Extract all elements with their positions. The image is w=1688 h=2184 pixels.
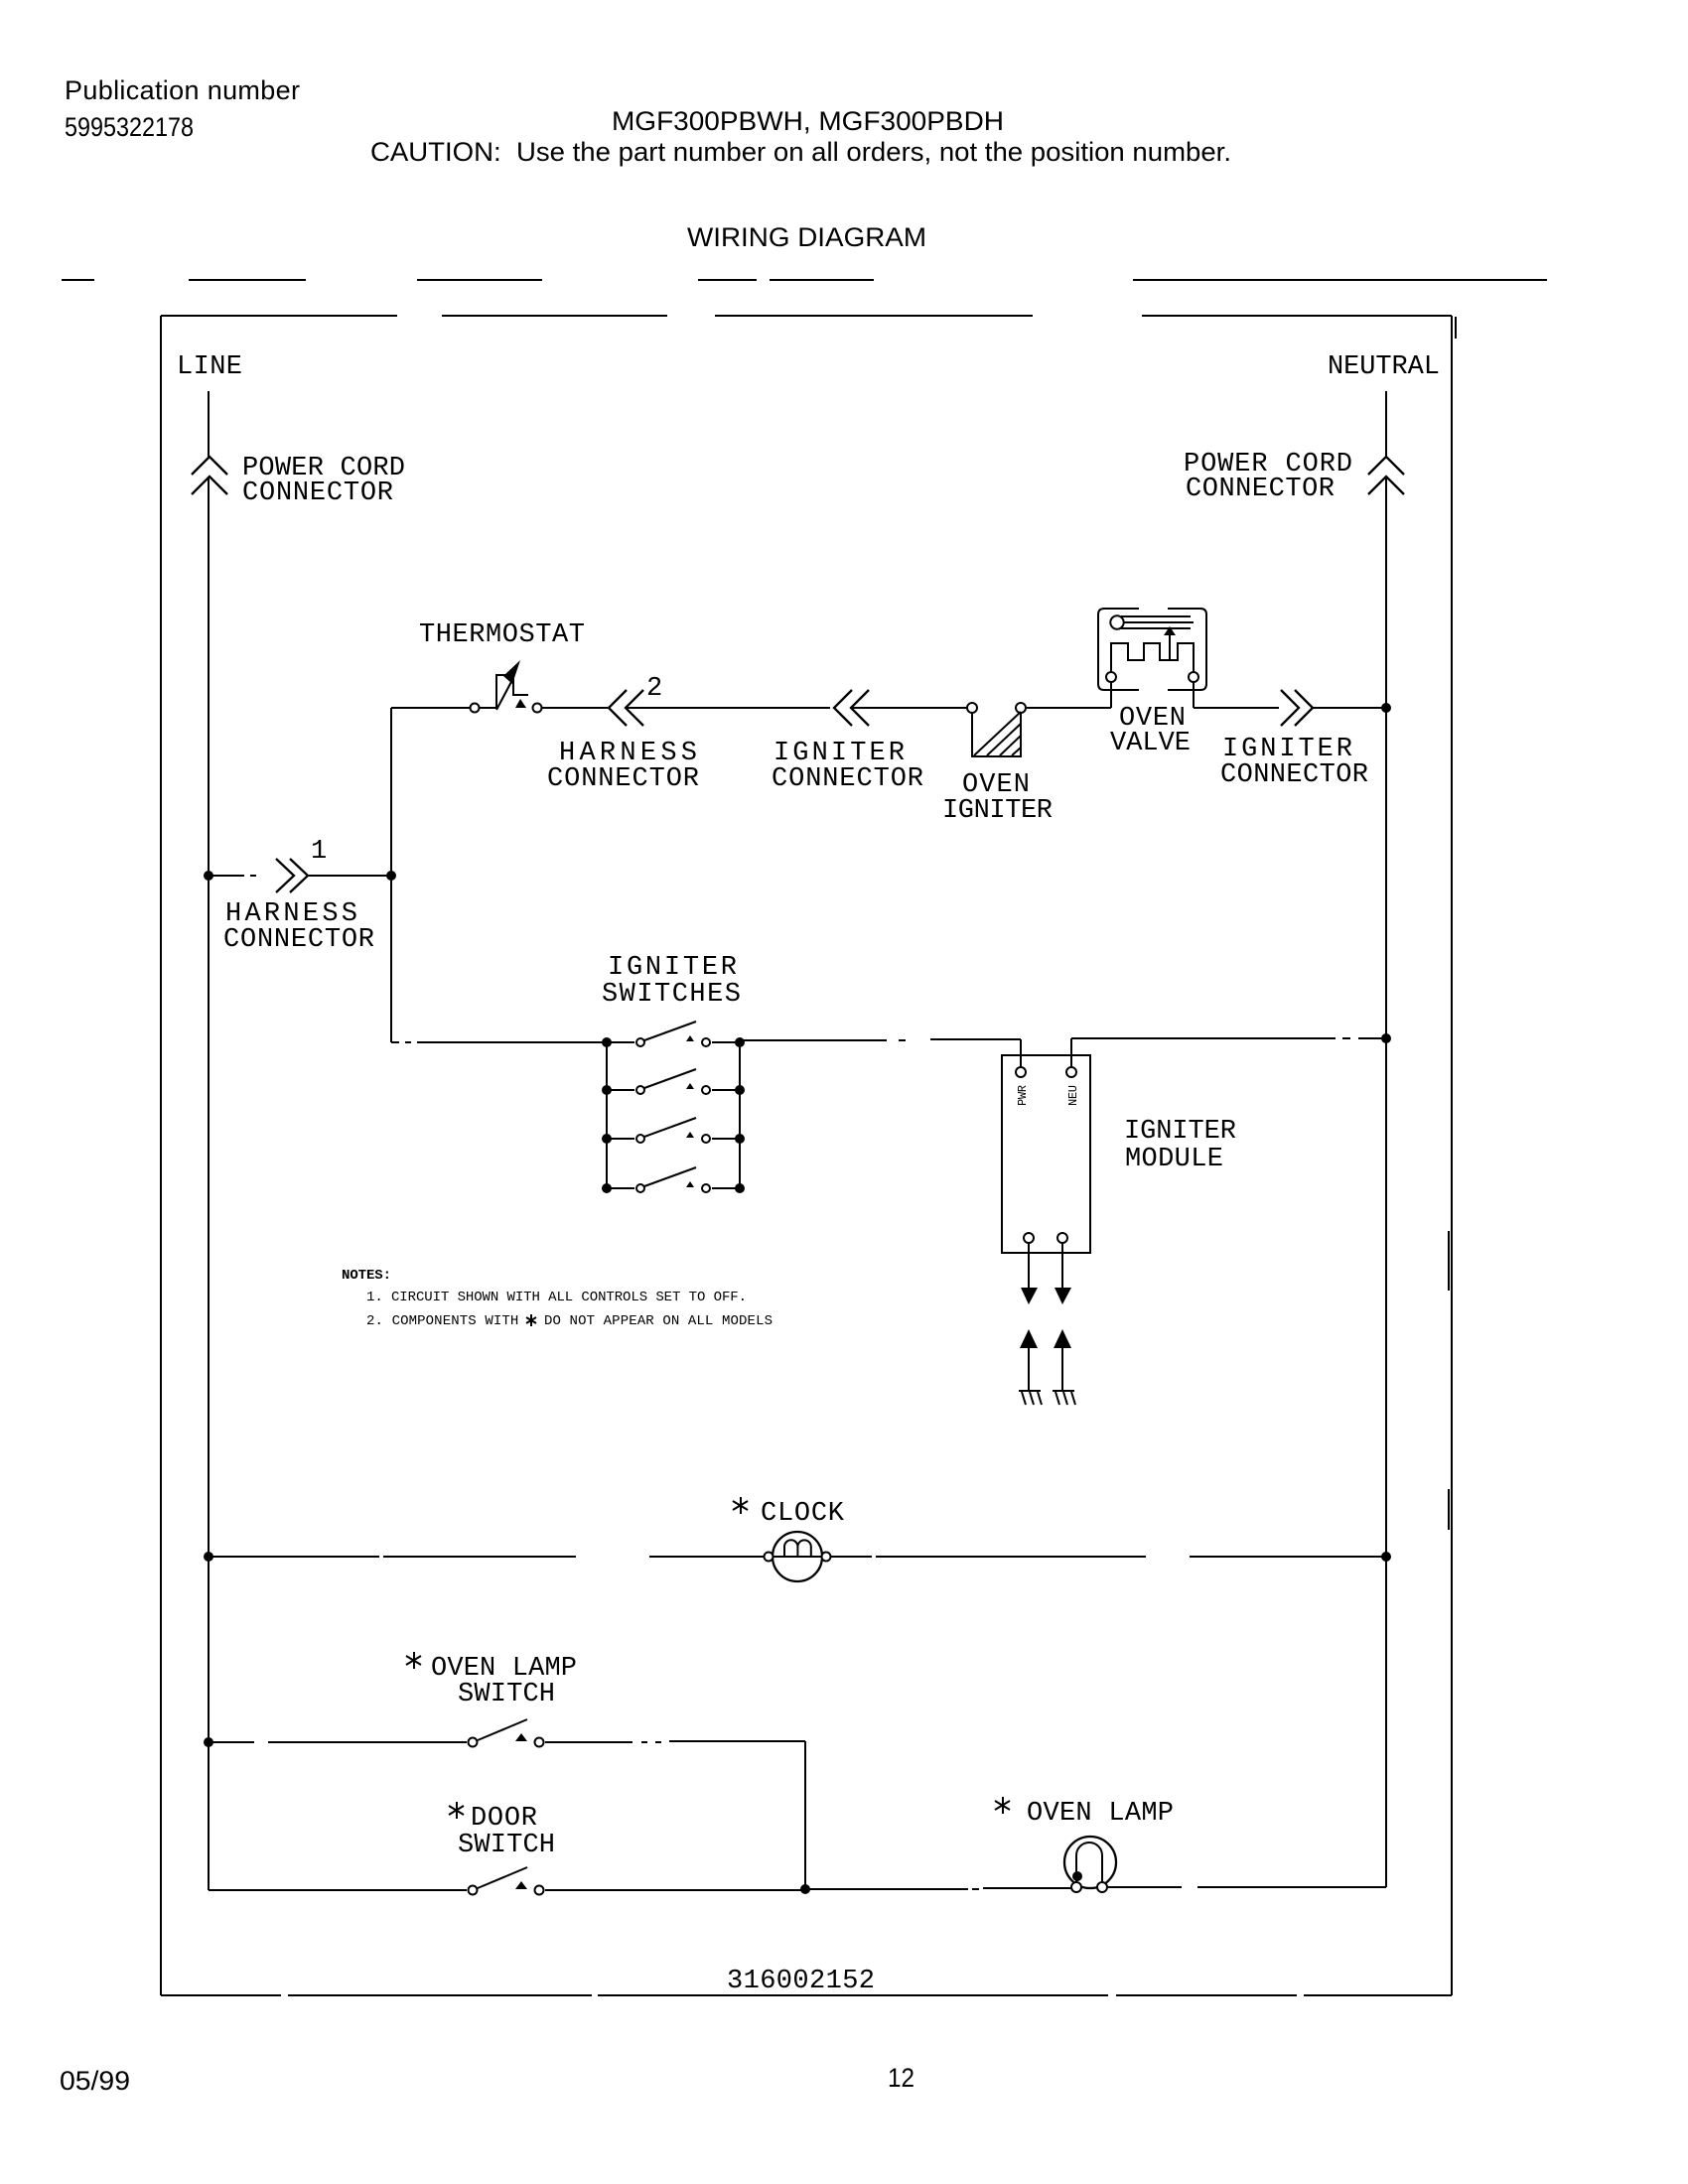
wire: harness row right xyxy=(309,875,391,877)
oven lamp switch xyxy=(406,1652,577,1747)
svg-text:CONNECTOR: CONNECTOR xyxy=(1186,475,1335,504)
wire: thermostat branch vertical xyxy=(390,708,392,1042)
svg-text:CLOCK: CLOCK xyxy=(761,1499,845,1529)
junction: NEUTRAL bus / clock row xyxy=(1381,1552,1391,1562)
svg-text:SWITCH: SWITCH xyxy=(458,1680,555,1709)
wire: igniter connector right to NEUTRAL bus xyxy=(1313,707,1386,709)
igniter module xyxy=(1002,1055,1236,1253)
wire: junction to oven lamp xyxy=(805,1888,1071,1889)
junction: thermostat row / NEUTRAL bus xyxy=(1381,703,1391,713)
harness connector 2 xyxy=(547,674,699,794)
wire: branch to igniter switches xyxy=(391,1041,607,1043)
svg-text:IGNITER: IGNITER xyxy=(608,953,737,983)
svg-text:OVEN LAMP: OVEN LAMP xyxy=(1027,1799,1174,1829)
wire: module PWR lead to plug xyxy=(1028,1243,1030,1288)
wire: igniter module NEU to NEUTRAL bus xyxy=(1071,1038,1386,1067)
wire: lamp branch vertical xyxy=(804,1741,806,1889)
svg-text:IGNITER: IGNITER xyxy=(942,796,1053,826)
svg-text:IGNITER: IGNITER xyxy=(1124,1117,1236,1147)
wire: oven lamp switch row left xyxy=(209,1741,467,1743)
junction: LINE bus / oven lamp switch row xyxy=(204,1737,213,1747)
wire: switches to igniter module PWR xyxy=(740,1039,1021,1067)
svg-text:NOTES:: NOTES: xyxy=(342,1268,391,1284)
door switch xyxy=(449,1802,555,1895)
svg-text:12: 12 xyxy=(888,2063,914,2093)
junction: lamp branch / door row xyxy=(800,1884,810,1894)
svg-text:Publication number: Publication number xyxy=(65,75,300,105)
svg-text:WIRING DIAGRAM: WIRING DIAGRAM xyxy=(687,222,926,252)
wire: oven lamp to NEUTRAL bus xyxy=(1108,1886,1386,1888)
igniter connector (middle) xyxy=(772,690,923,794)
igniter connector (right) xyxy=(1220,690,1368,790)
svg-text:CONNECTOR: CONNECTOR xyxy=(1220,760,1368,790)
svg-text:LINE: LINE xyxy=(177,352,242,382)
junction: LINE bus / clock row xyxy=(204,1552,213,1562)
ground (PWR side) xyxy=(1019,1391,1042,1405)
wire: LINE bus xyxy=(208,391,210,1890)
svg-text:1. CIRCUIT SHOWN WITH ALL CONT: 1. CIRCUIT SHOWN WITH ALL CONTROLS SET T… xyxy=(366,1290,747,1305)
wire: plug to ground (NEU side) xyxy=(1061,1348,1063,1391)
oven valve xyxy=(1098,609,1206,758)
wire: module NEU lead to plug xyxy=(1061,1243,1063,1288)
svg-text:1: 1 xyxy=(311,837,327,867)
wire: thermostat to harness connector 2 xyxy=(542,707,608,709)
clock xyxy=(733,1497,845,1581)
svg-text:DOOR: DOOR xyxy=(471,1804,537,1834)
wire: thermostat row left segment xyxy=(391,707,470,709)
svg-text:2: 2 xyxy=(646,674,662,704)
svg-text:MGF300PBWH, MGF300PBDH: MGF300PBWH, MGF300PBDH xyxy=(612,106,1004,136)
notes xyxy=(342,1268,773,1329)
svg-text:CONNECTOR: CONNECTOR xyxy=(223,925,374,955)
wire: clock row xyxy=(209,1556,1386,1558)
svg-text:MODULE: MODULE xyxy=(1125,1145,1223,1174)
plug arrow down (NEU) xyxy=(1055,1288,1071,1304)
harness connector 1 xyxy=(223,837,374,955)
wire: harness row left xyxy=(209,875,256,877)
svg-text:NEU: NEU xyxy=(1066,1085,1080,1106)
svg-text:PWR: PWR xyxy=(1016,1085,1030,1106)
svg-text:CONNECTOR: CONNECTOR xyxy=(772,764,923,794)
svg-text:5995322178: 5995322178 xyxy=(65,112,194,142)
svg-text:CONNECTOR: CONNECTOR xyxy=(547,764,699,794)
svg-text:05/99: 05/99 xyxy=(60,2066,130,2096)
igniter switches xyxy=(602,953,745,1193)
thermostat xyxy=(419,620,585,713)
svg-text:CONNECTOR: CONNECTOR xyxy=(242,478,393,508)
svg-text:2. COMPONENTS WITH DO NOT AP: 2. COMPONENTS WITH DO NOT APPEAR ON ALL … xyxy=(366,1313,773,1329)
junction: LINE bus / harness row xyxy=(204,871,213,881)
plug arrow up (PWR side) xyxy=(1020,1329,1038,1348)
wire: plug to ground (PWR side) xyxy=(1028,1348,1030,1391)
wire: oven igniter to oven valve xyxy=(1026,707,1111,709)
oven lamp xyxy=(995,1797,1174,1892)
svg-text:NEUTRAL: NEUTRAL xyxy=(1328,352,1440,382)
plug arrow up (NEU side) xyxy=(1054,1329,1071,1348)
svg-text:THERMOSTAT: THERMOSTAT xyxy=(419,620,585,650)
oven igniter xyxy=(942,703,1053,826)
junction: module row / NEUTRAL bus xyxy=(1381,1033,1391,1043)
junction: harness row / branch xyxy=(386,871,396,881)
wire: NEUTRAL bus xyxy=(1385,391,1387,1887)
svg-text:316002152: 316002152 xyxy=(727,1967,875,1996)
wire: igniter connector to oven igniter xyxy=(851,707,967,709)
part number xyxy=(721,1966,882,1996)
svg-text:SWITCHES: SWITCHES xyxy=(602,980,741,1010)
wire: oven valve to igniter connector right xyxy=(1194,707,1279,709)
ground (NEU side) xyxy=(1053,1391,1075,1405)
wire: oven lamp switch row right xyxy=(545,1741,805,1742)
wire: harness connector 2 to igniter connector xyxy=(626,707,830,709)
title: publication number xyxy=(65,75,300,142)
svg-text:VALVE: VALVE xyxy=(1110,729,1191,758)
wire: door switch row left xyxy=(209,1889,467,1891)
power cord connector (LINE side) xyxy=(192,454,405,508)
svg-text:SWITCH: SWITCH xyxy=(458,1831,555,1860)
power cord connector (NEUTRAL side) xyxy=(1184,450,1404,504)
wire: door switch row to junction xyxy=(545,1889,805,1891)
svg-text:CAUTION: Use the part number: CAUTION: Use the part number on all orde… xyxy=(370,137,1231,167)
plug arrow down (PWR) xyxy=(1021,1288,1038,1304)
